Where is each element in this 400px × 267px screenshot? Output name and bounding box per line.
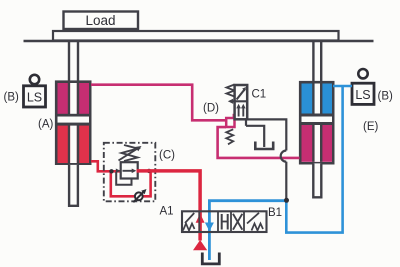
- DCV right spring: [252, 224, 264, 231]
- valve C pilot loop black: [116, 172, 131, 185]
- label B1: [268, 207, 282, 219]
- svg-text:B1: B1: [268, 207, 282, 219]
- DCV left solenoid slash: [185, 213, 194, 223]
- slash in top box: [237, 89, 246, 100]
- cylinder E piston rod upper: [313, 41, 321, 84]
- svg-text:LS: LS: [355, 88, 370, 102]
- cylinder A piston rod upper: [69, 41, 78, 84]
- junction dot C input: [109, 169, 113, 173]
- label (B) left: [4, 92, 20, 104]
- wire black C1 drain to B1 junction: [247, 119, 286, 200]
- wire magenta to cylinder E bottom: [218, 127, 300, 158]
- valve C1 body: [228, 85, 247, 119]
- junction dot B1: [284, 198, 289, 203]
- valve C1 spring top: [227, 85, 235, 97]
- cylinder A rod lower: [69, 165, 78, 206]
- label (A): [38, 119, 54, 131]
- label (C): [159, 150, 175, 162]
- tank under C1: [255, 142, 273, 150]
- svg-text:LS: LS: [27, 91, 42, 105]
- svg-text:(D): (D): [203, 103, 219, 115]
- valve C dashed enclosure: [104, 143, 156, 202]
- pilot square valve D: [226, 114, 234, 127]
- cylinder E rod lower: [313, 163, 321, 197]
- piston E: [302, 114, 333, 117]
- label A1: [160, 206, 174, 218]
- DCV left spring: [183, 224, 195, 231]
- wire black C1 to tank: [246, 120, 264, 148]
- wire magenta cylinder A top to valve D: [91, 85, 226, 121]
- check valve in C: [133, 189, 146, 202]
- wire red cylinder A bottom to valve C: [91, 161, 121, 171]
- junction dot C output: [147, 169, 151, 173]
- wire red valve C output to DCV: [137, 171, 201, 241]
- svg-text:(C): (C): [159, 150, 175, 162]
- label (D): [203, 103, 219, 115]
- load sensor B right: [352, 69, 374, 104]
- wire blue tank line through DCV: [209, 201, 286, 260]
- svg-text:A1: A1: [160, 206, 174, 218]
- svg-text:(A): (A): [38, 119, 54, 131]
- shift arrow between boxes: [232, 100, 247, 102]
- valve C1 spring bottom: [226, 129, 233, 144]
- piston A: [58, 114, 90, 117]
- valve C spring with arrow: [119, 145, 142, 161]
- svg-text:Load: Load: [85, 13, 115, 28]
- wire blue B1 junction to right riser: [286, 86, 342, 233]
- svg-text:(E): (E): [363, 121, 379, 133]
- beam: [53, 31, 339, 41]
- DCV crossed arrows box: [233, 214, 242, 230]
- DCV right solenoid slash: [247, 213, 259, 224]
- wire red bypass loop: [111, 171, 151, 196]
- svg-text:(B): (B): [4, 92, 20, 104]
- label C1: [252, 89, 267, 101]
- DCV center closed H symbol: [222, 214, 228, 230]
- label (B) right: [378, 91, 394, 103]
- tank under DCV: [202, 253, 219, 264]
- red triangle arrow bottom: [193, 240, 207, 250]
- load box: [64, 12, 139, 30]
- blue flow arrow down in DCV: [205, 223, 214, 232]
- wire blue cylinder E top to LS: [333, 85, 352, 88]
- svg-text:C1: C1: [252, 89, 267, 101]
- svg-text:(B): (B): [378, 91, 394, 103]
- label (E): [363, 121, 379, 133]
- load sensor B left: [24, 75, 46, 107]
- cylinder A body: [56, 82, 90, 164]
- ground line: [24, 40, 374, 42]
- DCV body: [182, 211, 267, 232]
- red flow arrow up in DCV: [196, 214, 205, 223]
- valve C body square: [116, 162, 138, 178]
- arrows in bottom box: [238, 107, 240, 117]
- cylinder E body: [300, 82, 333, 163]
